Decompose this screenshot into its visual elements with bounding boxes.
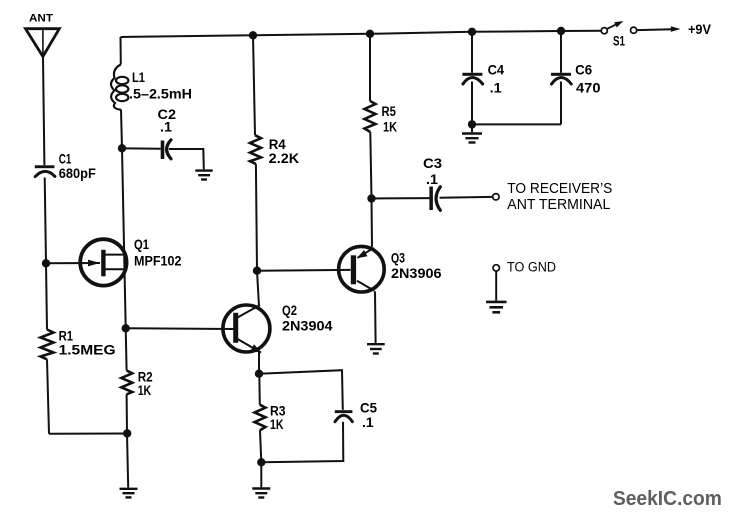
wire R5 top lead (369, 34, 371, 101)
wire Q1 drain stub (104, 254, 124, 256)
switch S1 (601, 21, 637, 34)
wire gate node to R1 (46, 263, 47, 329)
transistor Q3 (2N3906 PNP) (339, 246, 385, 292)
node Q1 source / Q2 base (122, 324, 130, 332)
wire Q2 base lead (126, 327, 234, 330)
capacitor C1 (35, 165, 55, 176)
ground (C2) (195, 171, 212, 180)
svg-text:2N3904: 2N3904 (282, 319, 333, 334)
node terminal circle (TO GND) (493, 265, 499, 271)
wire R3 bottom lead (260, 430, 261, 462)
svg-text:C1: C1 (59, 152, 72, 167)
wire C2 to ground corner (169, 149, 204, 169)
svg-text:C4: C4 (488, 63, 505, 78)
svg-text:.1: .1 (160, 120, 173, 135)
wire R3 top lead (258, 374, 261, 405)
wire C4 node to ground (471, 124, 473, 132)
wire C6 bottom lead (560, 82, 562, 125)
svg-text:2N3906: 2N3906 (391, 266, 442, 281)
svg-text:R5: R5 (382, 104, 397, 119)
capacitor C2 (161, 140, 171, 159)
svg-text:470: 470 (576, 81, 601, 96)
node junction dots (42, 27, 565, 467)
capacitor C3 (429, 187, 440, 211)
node R5 / C3 / Q3 emitter (367, 194, 375, 202)
node antenna / gate (42, 259, 50, 267)
ground (R2) (120, 489, 138, 498)
node R1 / R2 bottom (123, 429, 131, 437)
svg-text:ANT: ANT (29, 13, 53, 25)
wire Q3 emitter lead (371, 199, 374, 247)
node R3 / C5 bottom (257, 458, 265, 466)
resistor R4 (250, 135, 261, 164)
svg-text:.5–2.5mH: .5–2.5mH (129, 87, 192, 102)
wire R4 top lead (253, 35, 255, 135)
svg-text:.1: .1 (490, 81, 503, 96)
transistor Q1 (JFET) (80, 239, 126, 285)
wire C6 top lead (560, 31, 562, 73)
wire R3 node to ground (260, 462, 262, 487)
wire top bus (121, 31, 602, 37)
wire Q2 collector lead (257, 271, 259, 307)
wire C3 to terminal circle (440, 196, 493, 199)
svg-text:680pF: 680pF (59, 166, 96, 181)
node L1 / C2 (118, 144, 126, 152)
svg-text:S1: S1 (613, 34, 625, 49)
wire Q3 base lead (257, 269, 351, 272)
wire Q2 emitter lead (258, 352, 260, 374)
wire R2 bottom to ground (127, 394, 129, 487)
inductor L1 (111, 65, 128, 110)
svg-text:ANT TERMINAL: ANT TERMINAL (507, 196, 610, 213)
wire Q1 source stub (104, 268, 124, 270)
wire TO-GND terminal lead (495, 271, 497, 301)
svg-text:MPF102: MPF102 (134, 254, 182, 269)
svg-text:TO GND: TO GND (507, 260, 556, 276)
resistor R2 (121, 371, 132, 395)
wire C4 bottom lead (471, 82, 473, 125)
antenna ANT (26, 29, 60, 57)
wire R1 bottom lead (47, 359, 49, 434)
svg-text:Q2: Q2 (282, 303, 297, 318)
wire L1 top lead (120, 37, 122, 65)
wire L1 bottom to node (121, 110, 122, 149)
svg-text:R1: R1 (59, 329, 74, 344)
svg-text:1K: 1K (270, 417, 284, 432)
wire C1 to gate node (45, 178, 46, 264)
wire Q1 gate lead (46, 262, 100, 264)
node top bus / R4 (249, 31, 257, 39)
wire antenna down to C1 (43, 57, 44, 166)
svg-text:C6: C6 (575, 63, 592, 78)
wire Q3 collector to ground (374, 291, 377, 343)
svg-text:R4: R4 (269, 137, 286, 152)
svg-text:.1: .1 (362, 415, 374, 430)
svg-text:C3: C3 (423, 156, 443, 171)
wire bottom-left horizontal (49, 433, 127, 435)
svg-text:Q1: Q1 (134, 237, 149, 252)
capacitor C6 (551, 73, 571, 84)
svg-text:1K: 1K (383, 120, 397, 135)
ground (Q3 collector) (367, 344, 385, 353)
node top bus / R5 (366, 30, 374, 38)
svg-text:TO RECEIVER’S: TO RECEIVER’S (507, 180, 612, 197)
svg-text:C5: C5 (360, 401, 377, 416)
wire emitter node to C5 branch (259, 370, 343, 410)
svg-text:1K: 1K (138, 383, 152, 398)
resistor R1 (41, 330, 54, 360)
wire C3 left lead (372, 197, 431, 199)
wire Q1 drain-source vertical branch (122, 148, 126, 328)
wire R5 bottom to C3 node (370, 132, 371, 199)
svg-text:Q3: Q3 (391, 251, 405, 266)
resistor R3 (255, 405, 266, 431)
transistor Q2 (2N3904 NPN) (223, 305, 270, 353)
node top bus / C6 (557, 27, 565, 35)
svg-text:SeekIC.com: SeekIC.com (613, 488, 722, 510)
ground (R3) (252, 489, 270, 498)
+9V supply arrow (671, 26, 681, 32)
node Q2 emitter / R3 / C5 (255, 370, 263, 378)
wire R4 bottom to Q3-base node (256, 164, 257, 271)
ground (TO GND terminal) (486, 302, 507, 312)
ground (C4-C6) (462, 134, 482, 143)
wire S1 output lead (637, 28, 673, 31)
capacitor C4 (462, 73, 482, 84)
svg-text:.1: .1 (426, 172, 439, 187)
wire C4 top lead (471, 32, 473, 73)
node R4 / Q3 base (253, 267, 261, 275)
capacitor C5 (335, 410, 353, 422)
svg-text:L1: L1 (132, 70, 145, 85)
node terminal circle (receiver) (493, 194, 499, 200)
resistor R5 (365, 101, 376, 132)
wire C5 bottom loop (261, 422, 343, 463)
svg-text:+9V: +9V (688, 22, 711, 38)
wire node to C2 (122, 147, 161, 150)
node top bus / C4 (468, 28, 476, 36)
svg-text:2.2K: 2.2K (269, 151, 300, 166)
wire R2 top lead (125, 328, 128, 370)
svg-text:1.5MEG: 1.5MEG (59, 343, 116, 358)
node C4 / C6 bottom (468, 120, 476, 128)
wire C4-C6 bottom bus (472, 123, 561, 125)
